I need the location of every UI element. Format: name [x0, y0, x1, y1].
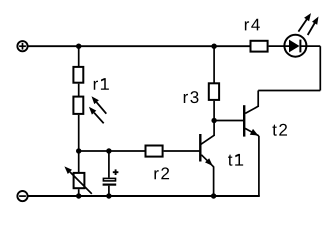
- potentiometer wire bottom: [78, 189, 80, 196]
- capacitor wire top: [108, 151, 110, 178]
- wire top rail from + to r4: [28, 45, 250, 47]
- terminal + (positive supply): [17, 41, 27, 51]
- wire r1 to LDR: [78, 84, 80, 97]
- node junction bottom capacitor: [106, 193, 111, 198]
- label t1: [228, 154, 243, 166]
- label r1: [94, 78, 109, 90]
- node junction top-left: [76, 44, 81, 49]
- capacitor wire bottom: [108, 186, 110, 196]
- wire LED cathode to right corner: [300, 45, 320, 47]
- potentiometer wire top: [78, 151, 80, 173]
- label r3: [184, 91, 199, 103]
- node junction mid-left: [76, 148, 81, 153]
- wire t2 emitter down: [258, 136, 260, 196]
- wire r4 to LED anode: [269, 45, 290, 47]
- wire t2 collector to LED branch: [258, 46, 320, 90]
- label r2: [154, 167, 169, 179]
- LDR light arrow 2: [89, 107, 104, 124]
- LED light arrow 2: [308, 17, 319, 36]
- node junction bottom pot: [76, 193, 81, 198]
- wire mid rail to r2: [79, 150, 145, 152]
- photoresistor LDR: [73, 97, 83, 114]
- wire LDR to mid node: [78, 115, 80, 151]
- resistor r2: [146, 146, 163, 157]
- wire bottom rail: [28, 195, 260, 197]
- transistor t1: [200, 120, 214, 167]
- node junction r3 bottom: [211, 118, 216, 123]
- LED light arrow 1: [298, 13, 311, 32]
- transistor t2: [244, 91, 259, 137]
- resistor r4: [251, 41, 268, 52]
- resistor r1: [73, 67, 83, 83]
- wire r3 top lead: [213, 46, 215, 83]
- terminal - (negative supply): [17, 191, 27, 201]
- wire r2 to t1 base: [164, 150, 200, 152]
- wire r1 top lead: [78, 46, 80, 67]
- node junction t1 emitter bottom: [211, 193, 216, 198]
- node junction top r3: [211, 44, 216, 49]
- label r4: [245, 19, 260, 31]
- LDR light arrow 1: [92, 96, 107, 113]
- wire t1 emitter down: [213, 166, 215, 196]
- LED d1: [284, 35, 306, 57]
- label t2: [272, 124, 287, 136]
- node junction capacitor top: [106, 148, 111, 153]
- capacitor c1 polarized: [103, 169, 119, 184]
- wire node to t2 base: [214, 120, 243, 122]
- potentiometer: [64, 166, 91, 193]
- wire r3 bottom lead: [213, 101, 215, 121]
- resistor r3: [209, 83, 219, 100]
